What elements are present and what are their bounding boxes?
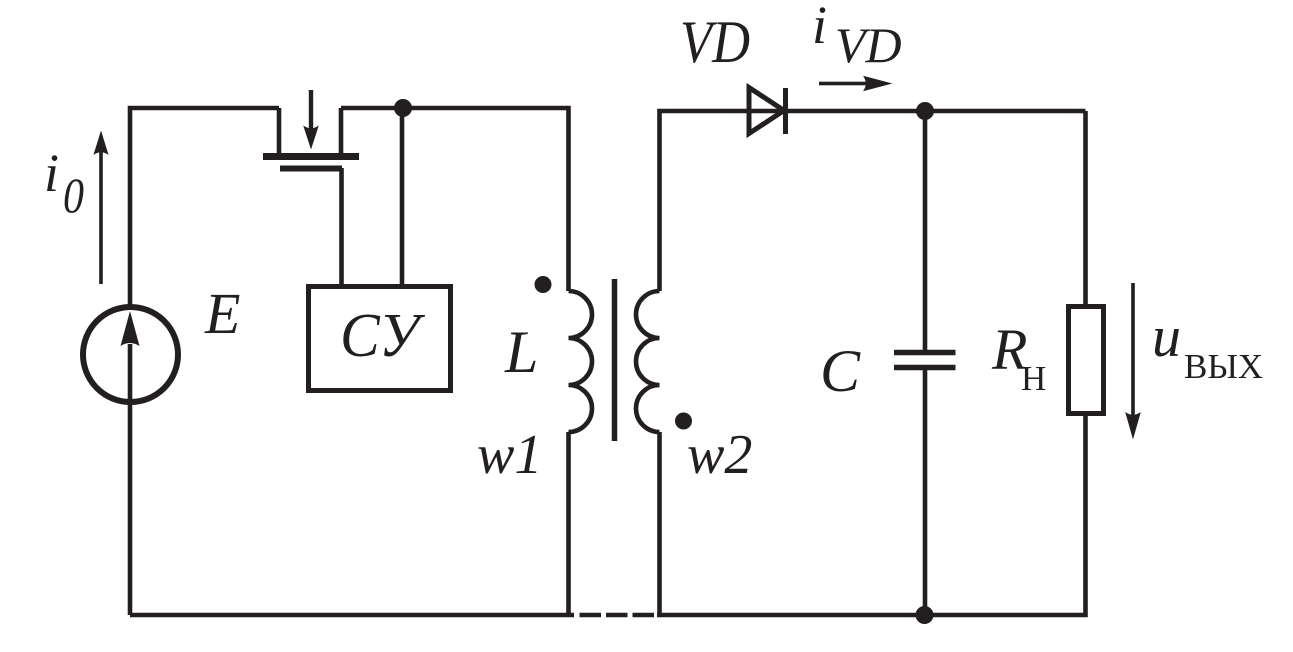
wire secondary winding bottom	[657, 432, 662, 615]
wire secondary winding top to diode/top rail	[660, 111, 1086, 291]
diode VD cathode bar	[783, 88, 788, 134]
svg-text:E: E	[204, 281, 240, 346]
wire top node to capacitor	[923, 111, 928, 350]
transistor VT right electrode vertical	[339, 108, 344, 154]
wire dashed isolation segment in bottom rail	[580, 613, 655, 618]
resistor RH body	[1069, 307, 1104, 414]
svg-text:L: L	[504, 319, 538, 385]
wire top segment from transistor to transformer primary top	[341, 108, 569, 291]
transistor VT channel bar	[263, 153, 359, 160]
wire node to control unit	[400, 108, 405, 287]
transistor VT control arrow (down)	[303, 90, 319, 150]
node junction dot at transistor output	[394, 99, 412, 117]
svg-text:Н: Н	[1021, 359, 1046, 398]
svg-text:C: C	[820, 338, 861, 404]
capacitor C bottom plate	[894, 365, 956, 371]
wire bottom-left rail	[130, 613, 574, 618]
wire left loop: left vertical + top-left segment	[130, 108, 279, 306]
winding w2 (secondary) arcs	[636, 291, 660, 432]
svg-text:VD: VD	[680, 9, 750, 75]
svg-text:СУ: СУ	[340, 302, 426, 370]
svg-text:w2: w2	[687, 424, 752, 486]
wire gate to control unit	[339, 168, 344, 287]
svg-text:0: 0	[63, 167, 84, 223]
wire source bottom to bottom rail	[128, 344, 133, 615]
node junction dot top (diode to C and R)	[916, 102, 934, 120]
source E circle	[83, 307, 178, 402]
wire capacitor to bottom node	[923, 370, 928, 615]
diode VD triangle	[749, 88, 784, 134]
wire top rail right corner down to resistor	[1083, 111, 1088, 306]
transistor VT (MOSFET switch) left electrode vertical	[277, 108, 282, 154]
wire primary winding bottom	[566, 432, 571, 615]
wire resistor bottom to bottom rail	[657, 414, 1086, 615]
transistor VT gate bar	[280, 166, 342, 172]
node junction dot bottom	[916, 606, 934, 624]
polarity dot winding w2	[675, 413, 692, 430]
svg-text:w1: w1	[477, 424, 542, 486]
svg-text:VD: VD	[835, 17, 902, 73]
svg-text:i: i	[44, 143, 59, 203]
control unit CU box	[309, 287, 451, 391]
source E arrow head (up, inside circle)	[121, 311, 140, 346]
capacitor C top plate	[894, 350, 956, 356]
svg-text:ВЫХ: ВЫХ	[1184, 347, 1263, 386]
voltage u_out arrow (down)	[1125, 283, 1141, 440]
current iVD arrow	[819, 76, 893, 92]
transformer core	[612, 279, 618, 441]
svg-text:u: u	[1152, 304, 1181, 369]
winding w1 (primary, with L) arcs	[569, 291, 593, 432]
svg-text:i: i	[812, 0, 827, 55]
current i0 arrow	[93, 131, 108, 285]
polarity dot winding w1	[535, 276, 552, 293]
